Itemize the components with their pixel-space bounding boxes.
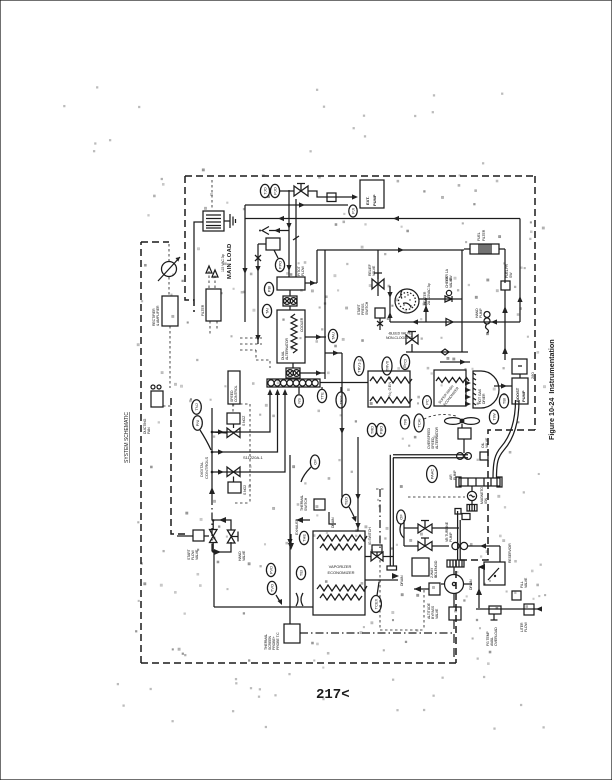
dashed cluster left of cooler [240,338,270,368]
exhaust arrow down [288,534,294,550]
outer dashed frame top edge [185,175,535,177]
instrument bubble NS [295,395,304,407]
instrument bubble TAU [328,329,337,342]
instrument bubble THE [299,531,308,544]
instrument bubble OF [310,455,319,469]
arrow drain right [392,573,399,579]
wire box to valve loop [177,535,193,537]
ignition valve with actuator [371,545,383,561]
speed control box [228,371,240,404]
pressure switch square [501,281,510,290]
svg-text:TBI: TBI [501,398,506,404]
svg-text:FUEL: FUEL [477,232,481,241]
leader TCEX [377,582,379,596]
outer dashed frame bottom edge [141,662,456,664]
wire manifold feeder B [212,389,280,455]
arrows into combustor [465,380,471,406]
svg-text:& AMPLIFIER: & AMPLIFIER [156,305,160,326]
wire heater to check valve [419,298,462,300]
label EXT PUMP [365,194,377,206]
wire PJO to valve [280,190,294,192]
leader TVO to main line [276,595,282,605]
rectifier amplifier box [162,296,178,326]
thermal switch square [314,499,325,510]
arrow left on y218 a [278,216,284,221]
valve SV2 [227,467,240,482]
ground symbol [224,214,236,228]
leader to PPO [274,250,278,258]
reservoir box [484,562,505,585]
battery B1 [203,211,224,231]
heavy dashed drop line [453,620,455,660]
svg-text:N₂ GEN: N₂ GEN [387,382,392,396]
svg-text:TEO: TEO [343,497,348,505]
orifice pair upper [283,296,297,306]
arrow left y322 b [491,319,497,324]
label RELIEF VALVE [368,264,376,276]
turbine fan blades [445,418,480,428]
instrument bubble OF [397,510,406,524]
label DUCTING FAN [143,418,151,434]
instrument bubble TEI [296,566,305,579]
svg-text:TAU: TAU [330,332,335,340]
wire dashed rectifier to fan [169,326,171,388]
wire vertical x212 [209,408,215,552]
meter M1 circle with arrow [158,257,180,281]
svg-text:NON-CLOGGING: NON-CLOGGING [386,336,413,340]
wire magneto stem down [471,501,473,505]
label HAND VALVE [238,550,246,561]
svg-text:TEI: TEI [298,570,303,576]
pitot flow box [277,277,305,290]
tiny box a [462,514,470,520]
manifold bar [267,379,320,387]
svg-text:TRD: TRD [369,426,374,434]
wire manifold right link [320,382,368,384]
svg-text:PPO: PPO [277,261,282,269]
wire bypass box left [414,588,429,590]
exhaust arrow left [296,517,310,523]
instrument bubble PBO [376,423,385,436]
wire dashed arrow up A [206,266,212,288]
wire x317 up to y250 [316,250,318,283]
svg-text:FILTER: FILTER [201,304,205,316]
wire vertical x520 [519,219,521,323]
solenoid 2way box [412,558,429,576]
label THERMAL SWITCH [300,495,308,511]
wire inner frame y250 [317,249,464,251]
wire probe stem [289,607,291,624]
svg-text:PUMP: PUMP [453,470,457,480]
instrument bubble PBI [264,282,273,295]
svg-text:VAPORIZER: VAPORIZER [329,564,352,569]
label CHECK VALVE [445,275,453,288]
outer dashed frame left top jog [141,241,169,243]
dashed inner segment right of economizer [376,489,385,549]
filter box [206,289,221,321]
tiny box b [455,509,461,515]
svg-text:MAIN LOAD: MAIN LOAD [227,243,233,279]
wire loop verticals valve cluster [404,520,418,546]
svg-text:PROBE T.C: PROBE T.C [276,632,280,650]
arrow right orifice lower [316,370,322,375]
svg-text:BOOST: BOOST [515,387,520,402]
wire horizontal y205 [245,204,348,206]
wire vertical x358 [355,437,360,531]
box on y610 a [489,606,501,614]
arrow left y610 [536,606,542,611]
label VENT BLDG PUMP [445,521,453,542]
svg-text:DRAIN: DRAIN [400,575,404,586]
svg-text:VALVE: VALVE [242,550,246,561]
svg-text:TRI: TRI [402,419,407,425]
label press sw [505,263,513,278]
box on y610 b [524,604,534,615]
dashed boundary cart top [408,496,465,498]
chain line dash-dot [300,632,453,634]
arrow right pitot [310,280,316,285]
leader OF2 curve [400,524,404,538]
arrow left on y218 b [393,216,399,221]
instrument bubble TRV1-2 [354,357,364,376]
wire filter stubs [464,249,505,283]
instrument bubble TEO [341,494,350,507]
box 280 [512,359,527,374]
arrow left on funnel wire [274,228,280,233]
svg-text:SOLENOID: SOLENOID [434,560,438,578]
gear pump circle [441,567,472,607]
label ALTERNATOR SPEED SW [427,426,439,449]
wire vertical x462 [461,250,463,352]
inline component small square [327,193,336,202]
svg-text:OF: OF [398,514,403,520]
svg-text:COOLER: COOLER [300,317,304,332]
sensor box small [266,238,280,250]
solenoid S NOZ box [227,413,240,424]
vaporizer bottom coils [317,585,367,600]
wire x214 down [213,552,215,607]
svg-text:TNJ: TNJ [194,403,199,410]
start flow valve box [193,530,204,541]
instrument bubble TIW [489,410,498,424]
svg-text:ECONOMIZER: ECONOMIZER [327,570,354,575]
valve loop wires [213,517,231,555]
label VAPORIZER ECONOMIZER [327,564,354,575]
instrument bubble TJO [260,184,269,197]
svg-text:PUMP: PUMP [449,532,453,542]
label oil valve tiny [481,437,489,448]
pipe double horizontal turbine feed [393,455,468,458]
svg-text:PBO: PBO [378,426,383,434]
svg-text:PBI: PBI [266,286,271,292]
instrument bubble TTE [317,389,326,402]
drain funnel symbol [259,227,269,235]
svg-text:TAI: TAI [264,308,269,314]
arrow down x289 b [286,265,291,271]
svg-text:EXT.: EXT. [365,197,370,205]
instrument bubble TCI [400,355,409,370]
label 2-WAY SOLENOID [430,560,438,578]
check valve CV1 [445,290,452,302]
label ALTITUDE BYPASS VALVE [427,602,439,619]
label MAGNETO [480,487,488,504]
svg-text:VALVE: VALVE [485,437,489,448]
instrument bubble TVO [267,581,276,594]
svg-text:IGN: IGN [484,498,488,504]
leader PNI [200,430,211,450]
arrow right on y250 [398,247,404,252]
wire vertical x289 main [288,190,290,277]
shaft line [463,439,465,453]
svg-text:TIW: TIW [491,413,496,421]
wire combustor to boost pump [494,383,512,388]
leader OF to line [301,467,311,482]
pipe break symbol [296,593,303,606]
label DUAL ALTERNATOR [281,317,304,360]
svg-text:FLOW: FLOW [301,265,305,276]
label START PRESS SWITCH [357,301,369,315]
leader TEO to box [349,507,357,522]
hand pump [484,312,490,334]
wire bottom right line y610 [476,608,538,610]
wire cooler to orifice lower [292,363,294,368]
dashed enclosure altitude bypass [380,560,424,630]
svg-text:NS: NS [296,398,301,404]
boost pump box [512,378,528,404]
valve hourglass A [210,530,218,543]
pipe double vertical economizer exhaust [387,455,397,570]
fill valve box [512,591,521,600]
scan noise speckles [64,87,546,729]
ducting fan box [151,385,163,407]
svg-text:TCI: TCI [402,359,407,365]
magneto circle [467,486,476,501]
arrow up on x520 [517,296,522,302]
wire dashed meter top [168,244,170,261]
wire speed control to snoz [232,404,234,413]
wire y352 with diamond [406,349,468,355]
svg-text:Figure 10-24 Instrumentation: Figure 10-24 Instrumentation [547,339,556,440]
arrow down on x245 [242,268,247,274]
svg-text:VALVE: VALVE [435,608,439,619]
svg-text:PVD: PVD [268,566,273,574]
svg-text:DRAIN: DRAIN [331,517,335,528]
wire orifice to cooler [289,290,291,310]
svg-text:PUMP: PUMP [372,194,377,206]
wire into combustor top [440,359,470,364]
valve SV1 [227,424,240,438]
label HEATER [423,283,431,305]
arrow down x258 [255,266,260,272]
svg-text:OVERLOAD: OVERLOAD [494,627,498,646]
wire VB1 right [432,527,459,529]
svg-text:PUMP: PUMP [521,390,526,402]
wire vertical x325 [324,250,326,379]
wire bleed valve stem [411,344,413,352]
arrow right on y205 [299,202,305,207]
instrument bubble PNI [193,416,203,430]
svg-text:VALVE: VALVE [449,277,453,288]
svg-text:TCEX: TCEX [373,598,378,609]
dashed enclosure solenoids [235,404,250,503]
thermal probe box [284,624,300,643]
arrow right cooler [316,334,322,339]
wire boost pump to 280 box [519,374,521,378]
label HAND PUMP [475,308,483,318]
svg-text:S NO2: S NO2 [243,485,247,495]
svg-text:RESERVOIR: RESERVOIR [508,543,512,563]
instrument bubble PAAC [427,466,438,483]
wire reservoir feed [499,546,501,562]
svg-text:S NOZ: S NOZ [242,415,246,426]
solenoid S NO2 box [228,482,241,493]
outer dashed frame left edge [140,242,142,663]
svg-text:PNI: PNI [195,420,200,427]
label fg temp tiny [486,627,498,646]
label FILL VALVE [520,577,528,588]
wire vertical x290 economizer feed [287,455,292,607]
altitude bypass valve box [429,583,440,595]
label START FLOW VALVE [187,548,199,560]
valve VB2 with T stem [418,538,432,551]
combustor dome [473,371,499,408]
wire NS stem [298,387,300,394]
label RECTIFIER & AMPLIFIER [152,305,160,326]
wire reservoir down [476,564,485,608]
label ig switch [368,527,372,545]
valve small below start press [377,318,383,330]
wire VB2 right with circles [432,542,500,549]
N2 GEN heat exchanger [368,371,412,407]
instrument bubble TBI [499,394,508,408]
orifice pair lower [286,368,300,378]
tiny hatched box under magneto [467,505,477,512]
wire bottom y322 [390,321,520,323]
label dotted above filter [477,229,486,241]
arrow into ext pump [352,194,358,199]
label HTR tiny [445,268,453,281]
leader TCAI dotted [424,415,456,419]
svg-text:280: 280 [530,372,535,379]
instrument bubble TRD [367,423,376,436]
instrument bubble TAI [262,304,271,317]
instrument bubble PVD [266,563,275,576]
valve V1 gate valve top [294,184,308,197]
wire vertical x245 [244,205,246,322]
wire dashed filter bottom stubs [210,321,217,336]
label DIGITAL CONTROLS [199,456,209,479]
svg-text:ALTERNATOR: ALTERNATOR [285,337,289,360]
wire x390 with arrows [387,286,392,322]
wire valve to pump line [308,191,354,197]
gear striped bar [447,560,464,567]
valve hourglass B [227,530,238,543]
svg-text:VALVE: VALVE [524,577,528,588]
wire dashed battery to top frame [211,180,213,210]
dual alternator cooler box [277,310,305,363]
gearbox box [458,428,471,439]
wire cooler right to TAU [305,336,326,338]
arrow down x289 a [286,223,291,229]
box below gear pump [449,607,461,620]
outer dashed frame right step [456,430,535,663]
plenum striped bar [456,477,502,487]
label liter flow tiny [520,621,528,632]
svg-text:PUMP: PUMP [479,308,483,318]
drain bracket [329,512,336,524]
svg-text:CONTROLS: CONTROLS [204,456,209,479]
small box right of coupling [480,452,488,460]
svg-text:TRV6: TRV6 [384,360,389,371]
wire orifice lower right [300,372,325,374]
svg-text:PAAC: PAAC [429,469,434,480]
instrument bubble PJO [270,184,279,197]
wire dashed meter stem [168,277,170,295]
arrow left y322 a [412,319,418,324]
wire economizer right stubs [365,557,398,581]
start press switch box [375,308,385,318]
svg-text:SYSTEM SCHEMATIC: SYSTEM SCHEMATIC [124,412,130,463]
wire SV1 to junction [212,432,227,433]
svg-text:TJO: TJO [262,187,267,195]
svg-text:PJO: PJO [272,187,277,195]
wire vertical x342 [339,353,344,497]
svg-text:FAN: FAN [147,427,151,434]
ramp wash economizer box [434,370,469,407]
coupling circles [457,453,472,460]
instrument bubble TRVI [336,392,346,408]
svg-text:VALVE: VALVE [372,265,376,276]
label NON-CLOGGING BLEED VALVE [386,332,413,341]
wire dashed fan to inner frame [163,405,171,407]
svg-text:PC: PC [424,399,429,405]
arrow into bypass [414,586,421,592]
svg-text:S11220A-1: S11220A-1 [243,455,263,460]
junction dots [211,431,214,474]
relief valve RV [372,250,384,296]
svg-text:IG SWITCH: IG SWITCH [368,527,372,545]
svg-text:2A 115VAC 3φ: 2A 115VAC 3φ [427,283,431,305]
wire pitot right [305,282,317,284]
svg-text:OF: OF [312,459,317,465]
svg-text:CONTROL: CONTROL [234,385,238,402]
wire battery left [194,222,203,300]
svg-text:THE: THE [301,534,306,542]
wire TTE stem [321,387,323,390]
svg-text:FLOW: FLOW [524,621,528,632]
wire riser x426 [423,298,429,322]
inner dashed left segment [171,398,189,534]
label PITOT FLOW [297,265,305,276]
svg-text:TTE: TTE [319,392,324,400]
svg-text:FILTER: FILTER [482,229,486,241]
instrument bubble TNJ [192,400,202,414]
valve small on x258 [255,244,266,344]
svg-text:TCAI: TCAI [416,418,421,427]
svg-text:DRIER: DRIER [482,393,486,404]
wire funnel to x289 [269,230,289,232]
svg-text:217<: 217< [316,687,350,703]
fuel filter striped box [470,244,499,254]
wire stub x325 to x342 [325,350,342,355]
instrument bubble PC [423,396,432,409]
instrument bubble PJI [349,205,357,217]
wire manifold feeder C [212,389,288,475]
instrument bubble TRV6 [382,357,392,375]
instrument bubble TCEX [371,596,382,613]
label air pump tiny [449,470,457,480]
svg-text:TRVI: TRVI [338,395,343,404]
